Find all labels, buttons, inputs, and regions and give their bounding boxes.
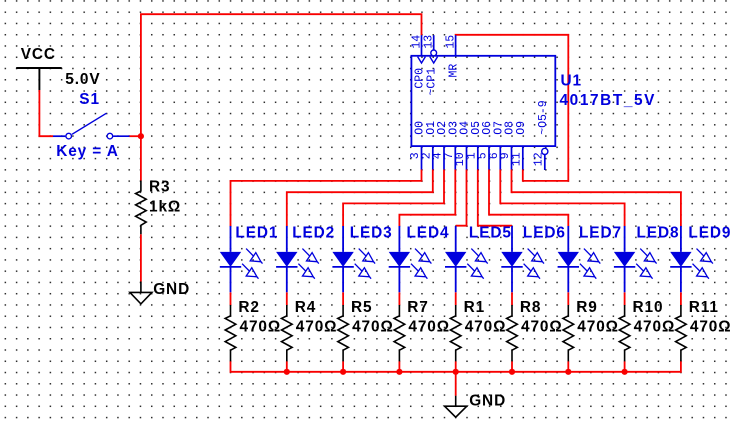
resistor R10 <box>619 299 675 361</box>
svg-text:LED9: LED9 <box>688 225 731 242</box>
svg-text:U1: U1 <box>561 72 582 89</box>
LED8 diode <box>614 225 680 293</box>
ground bus <box>231 361 681 372</box>
svg-text:R2: R2 <box>238 299 259 316</box>
wire node A up and to pin 14 <box>141 14 422 136</box>
wire LED9 to R11 <box>680 292 682 305</box>
svg-text:O9: O9 <box>515 121 528 135</box>
wire VCC to switch <box>39 90 53 136</box>
resistor R2 <box>225 299 281 361</box>
pin 12 stub <box>544 155 546 171</box>
svg-text:LED8: LED8 <box>637 225 680 242</box>
svg-text:R10: R10 <box>633 299 664 316</box>
svg-text:S1: S1 <box>79 91 100 108</box>
wire O7 to LED8 <box>500 170 624 227</box>
svg-text:R7: R7 <box>407 299 428 316</box>
svg-text:GND: GND <box>153 281 190 298</box>
LED9 diode <box>670 225 731 293</box>
bottom pin names O0-O9 <box>414 100 551 135</box>
svg-text:11: 11 <box>511 152 524 166</box>
svg-text:470Ω: 470Ω <box>296 318 338 335</box>
LED6 diode <box>501 225 566 293</box>
svg-text:470Ω: 470Ω <box>352 318 394 335</box>
svg-text:~O5-9: ~O5-9 <box>537 100 550 135</box>
svg-text:15: 15 <box>445 35 458 49</box>
svg-text:470Ω: 470Ω <box>577 318 619 335</box>
wire LED6 to R8 <box>511 292 513 305</box>
resistor R5 <box>338 299 394 361</box>
svg-text:LED2: LED2 <box>292 225 335 242</box>
resistor R8 <box>507 299 563 361</box>
junction dots on bus <box>284 369 628 375</box>
svg-text:470Ω: 470Ω <box>690 318 732 335</box>
svg-text:LED4: LED4 <box>407 225 450 242</box>
svg-text:R11: R11 <box>689 299 719 316</box>
LED5 diode <box>445 225 512 293</box>
svg-text:R9: R9 <box>576 299 597 316</box>
wire LED8 to R10 <box>624 292 626 305</box>
svg-text:VCC: VCC <box>21 46 56 63</box>
wire O3 to LED4 <box>399 170 455 227</box>
pin 13 clock wedge <box>430 57 438 63</box>
svg-text:470Ω: 470Ω <box>240 318 282 335</box>
svg-text:470Ω: 470Ω <box>465 318 507 335</box>
svg-text:R5: R5 <box>351 299 372 316</box>
wire O1 to LED2 <box>287 170 433 227</box>
bus drops from resistors <box>286 361 288 372</box>
svg-text:LED3: LED3 <box>350 225 393 242</box>
svg-text:5.0V: 5.0V <box>65 71 100 88</box>
wire O0 to LED1 <box>231 170 422 227</box>
svg-text:LED6: LED6 <box>523 225 566 242</box>
wire LED7 to R9 <box>567 292 569 305</box>
LED7 diode <box>558 225 622 293</box>
junction node A <box>138 133 144 139</box>
bottom pin stubs <box>422 146 523 169</box>
pin 13 stub <box>433 35 435 50</box>
svg-text:13: 13 <box>423 35 436 49</box>
LED2 diode <box>276 225 335 293</box>
pin 15 stub <box>455 35 457 56</box>
pin 14 stub <box>421 35 423 56</box>
wire LED4 to R7 <box>398 292 400 305</box>
svg-text:LED5: LED5 <box>469 225 512 242</box>
resistor R4 <box>282 299 338 361</box>
wire LED5 to R1 <box>455 292 457 305</box>
wire R3 to GND <box>140 234 142 281</box>
wire O8 to LED9 <box>512 170 681 227</box>
resistor R9 <box>563 299 619 361</box>
wire O4 to LED5 <box>456 170 467 226</box>
wire node A down to R3 <box>140 136 142 180</box>
wire LED1 to R2 <box>230 292 232 305</box>
resistor R11 <box>676 299 732 361</box>
wire O6 to LED7 <box>489 170 568 227</box>
svg-text:470Ω: 470Ω <box>408 318 450 335</box>
LED3 diode <box>332 225 392 293</box>
resistor R1 <box>450 299 506 361</box>
svg-text:12: 12 <box>533 152 546 166</box>
svg-text:MR: MR <box>448 64 461 78</box>
pin 12 bubble <box>542 148 548 154</box>
svg-text:4017BT_5V: 4017BT_5V <box>560 92 657 109</box>
svg-text:GND: GND <box>469 393 506 410</box>
LED1 diode <box>220 225 279 293</box>
svg-text:14: 14 <box>411 35 424 49</box>
wire O5 to LED6 <box>478 170 512 226</box>
wire O2 to LED3 <box>343 170 444 227</box>
svg-text:R4: R4 <box>295 299 316 316</box>
svg-text:R1: R1 <box>464 299 485 316</box>
wire LED3 to R5 <box>342 292 344 305</box>
svg-text:Key = A: Key = A <box>56 143 119 160</box>
wire bus to GND <box>455 372 457 396</box>
wire MR pin15 to O9 pin11 <box>456 35 569 181</box>
pin 13 bubble <box>431 50 437 56</box>
svg-text:1kΩ: 1kΩ <box>149 199 181 216</box>
svg-text:470Ω: 470Ω <box>634 318 676 335</box>
bottom pin numbers <box>409 152 546 166</box>
svg-text:CP0: CP0 <box>414 68 427 89</box>
svg-text:R8: R8 <box>520 299 541 316</box>
wire LED2 to R4 <box>286 292 288 305</box>
wire switch to node A <box>130 135 141 137</box>
resistor R7 <box>394 299 450 361</box>
LED4 diode <box>389 225 450 293</box>
svg-text:R3: R3 <box>149 179 170 196</box>
svg-text:LED7: LED7 <box>579 225 622 242</box>
svg-text:470Ω: 470Ω <box>521 318 563 335</box>
pin 14 clock wedge <box>418 57 426 63</box>
svg-text:LED1: LED1 <box>235 225 278 242</box>
svg-text:~CP1: ~CP1 <box>426 68 439 96</box>
